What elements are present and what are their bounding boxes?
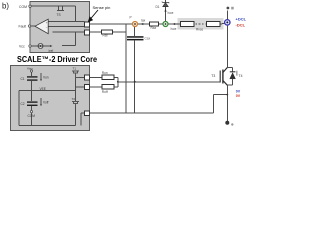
svg-text:Rvce: Rvce — [196, 28, 203, 32]
svg-text:Iax: Iax — [141, 18, 146, 22]
svg-text:SCALE™-2 Driver Core: SCALE™-2 Driver Core — [17, 55, 97, 64]
svg-text:Vcc: Vcc — [19, 45, 25, 49]
svg-text:T1: T1 — [73, 66, 77, 70]
svg-text:Voff: Voff — [43, 101, 49, 105]
svg-text:Iref: Iref — [49, 49, 54, 53]
svg-text:Fault: Fault — [19, 25, 27, 29]
svg-text:b): b) — [2, 2, 9, 11]
svg-text:Ivce: Ivce — [168, 11, 174, 15]
svg-text:−: − — [46, 25, 48, 29]
svg-text:TS: TS — [57, 13, 61, 17]
svg-text:Ron: Ron — [102, 71, 108, 75]
svg-text:0V: 0V — [236, 94, 241, 98]
svg-text:T2: T2 — [72, 97, 76, 101]
svg-text:C1: C1 — [21, 77, 25, 81]
svg-text:Cax: Cax — [145, 36, 151, 40]
svg-text:P: P — [130, 16, 132, 20]
svg-text:C2: C2 — [21, 102, 25, 106]
svg-text:COM: COM — [28, 114, 36, 118]
svg-text:D1: D1 — [156, 5, 160, 9]
svg-text:Raf: Raf — [103, 34, 108, 38]
svg-text:Ivce: Ivce — [171, 27, 177, 31]
svg-text:VEE: VEE — [40, 87, 46, 91]
svg-text:-DCL: -DCL — [236, 23, 246, 28]
svg-text:Roff: Roff — [102, 90, 108, 94]
svg-text:T3: T3 — [211, 74, 215, 78]
svg-text:T4: T4 — [239, 74, 243, 78]
svg-text:COM: COM — [19, 5, 27, 9]
svg-text:+DCL: +DCL — [236, 17, 247, 22]
svg-text:Rax: Rax — [151, 26, 157, 30]
svg-text:+: + — [46, 20, 48, 24]
svg-text:Sense pin: Sense pin — [93, 5, 111, 10]
svg-text:Viso: Viso — [27, 66, 33, 70]
svg-text:Von: Von — [43, 76, 49, 80]
